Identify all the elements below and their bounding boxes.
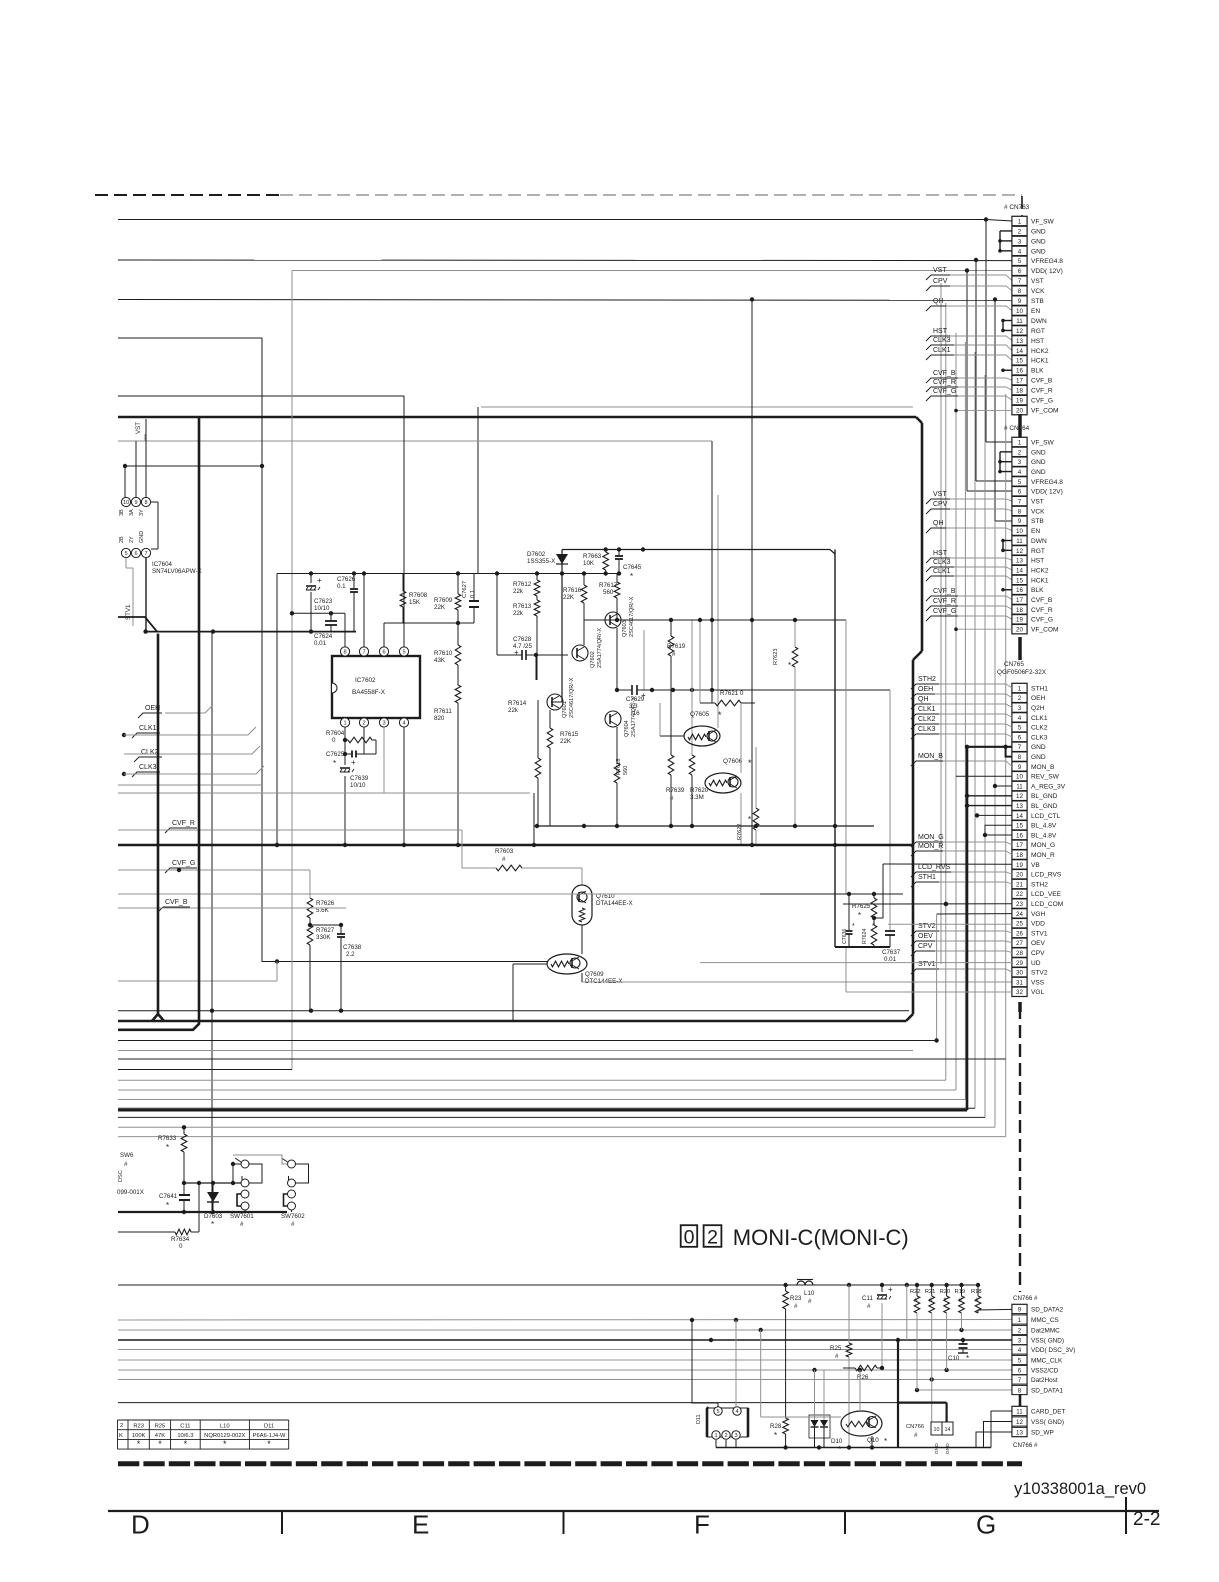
svg-text:RGT: RGT	[1031, 548, 1045, 555]
svg-text:CVF_B: CVF_B	[933, 370, 956, 377]
wire to pin9	[978, 1309, 1012, 1313]
svg-text:D: D	[131, 1510, 150, 1540]
svg-text:2SC4617/QR/-X: 2SC4617/QR/-X	[629, 596, 635, 637]
svg-text:C11: C11	[180, 1424, 190, 1430]
svg-text:HCK2: HCK2	[1031, 348, 1049, 355]
svg-text:2SA1774/QR/-X: 2SA1774/QR/-X	[597, 628, 603, 668]
svg-text:VF_COM: VF_COM	[1031, 407, 1058, 414]
svg-text:8: 8	[1018, 508, 1022, 515]
svg-text:17: 17	[1016, 842, 1023, 849]
svg-text:R7611: R7611	[434, 708, 452, 715]
bundle wire	[955, 333, 957, 1090]
vertical x752	[751, 300, 753, 846]
CLK1 wire	[124, 727, 256, 735]
svg-text:*: *	[184, 1439, 188, 1449]
svg-text:SD_DATA2: SD_DATA2	[1031, 1306, 1064, 1313]
svg-text:Dat2MMC: Dat2MMC	[1031, 1327, 1060, 1334]
svg-text:R7615: R7615	[560, 731, 579, 738]
wire LCD_VEE	[118, 893, 760, 895]
wire SD_WP pin13	[976, 1432, 1012, 1448]
svg-text:13: 13	[1016, 803, 1023, 810]
svg-text:22k: 22k	[513, 588, 524, 595]
svg-text:+: +	[888, 1285, 893, 1294]
svg-text:STH1: STH1	[918, 874, 936, 881]
top dashed border	[95, 194, 280, 196]
svg-text:*: *	[774, 1431, 777, 1440]
svg-text:VF_SW: VF_SW	[1031, 439, 1054, 446]
CLK3 wire	[124, 766, 264, 774]
svg-text:27: 27	[1016, 940, 1023, 947]
svg-text:10: 10	[1016, 308, 1023, 315]
svg-text:VDD( DSC_3V): VDD( DSC_3V)	[1031, 1347, 1075, 1354]
svg-text:*: *	[137, 1439, 141, 1449]
svg-text:10K: 10K	[583, 560, 595, 567]
svg-text:CVF_B: CVF_B	[165, 899, 188, 906]
svg-text:12: 12	[1016, 793, 1023, 800]
pin 7	[359, 647, 368, 656]
svg-text:C7623: C7623	[314, 598, 333, 605]
transistor Q7601	[547, 694, 563, 710]
svg-text:# CN763: # CN763	[1004, 204, 1030, 211]
svg-text:#: #	[124, 1161, 128, 1168]
svg-text:STH1: STH1	[1031, 685, 1048, 692]
riser x478	[477, 407, 479, 574]
svg-text:4: 4	[1018, 1347, 1022, 1354]
svg-text:D11: D11	[264, 1424, 274, 1430]
svg-text:MON_B: MON_B	[1031, 764, 1055, 771]
svg-text:STH2: STH2	[918, 676, 936, 683]
svg-text:22: 22	[1016, 891, 1023, 898]
wire y407	[481, 406, 913, 408]
svg-text:*: *	[852, 923, 855, 930]
svg-text:R7613: R7613	[513, 603, 532, 610]
svg-text:4: 4	[1018, 715, 1022, 722]
svg-text:GND: GND	[1031, 744, 1046, 751]
svg-text:12: 12	[1016, 548, 1023, 555]
svg-text:11: 11	[1016, 783, 1023, 790]
vertical x212	[211, 632, 213, 1210]
wire VFREG4.8	[118, 259, 1012, 262]
svg-text:QH: QH	[933, 520, 944, 527]
svg-text:R7623: R7623	[773, 649, 779, 665]
svg-text:HCK1: HCK1	[1031, 358, 1049, 365]
svg-text:L10: L10	[804, 1290, 815, 1297]
cable link	[1019, 1394, 1022, 1406]
svg-text:+: +	[641, 691, 646, 700]
bundle wire	[1005, 394, 1007, 1137]
svg-text:GND: GND	[945, 1443, 951, 1454]
svg-text:Q7604: Q7604	[624, 720, 630, 737]
svg-text:CARD_DET: CARD_DET	[1031, 1408, 1066, 1415]
svg-text:14: 14	[1016, 567, 1023, 574]
wire from Q7603	[643, 630, 645, 690]
svg-text:CLK1: CLK1	[139, 725, 157, 732]
svg-text:R18: R18	[971, 1289, 982, 1295]
bundle wire	[964, 342, 966, 1100]
svg-text:22K: 22K	[560, 738, 572, 745]
IC7604 inverter pins row1	[125, 465, 262, 467]
svg-text:#: #	[240, 1221, 244, 1228]
svg-text:R19: R19	[955, 1289, 966, 1295]
svg-text:8: 8	[144, 500, 147, 506]
svg-text:DSC: DSC	[118, 1170, 124, 1182]
svg-text:CLK3: CLK3	[1031, 734, 1048, 741]
svg-text:22K: 22K	[563, 594, 575, 601]
svg-text:*: *	[748, 758, 752, 768]
switch cell	[288, 1160, 296, 1168]
svg-text:C7624: C7624	[314, 633, 333, 640]
svg-text:VSS( GND): VSS( GND)	[1031, 1337, 1064, 1344]
wire VGH pin24	[937, 913, 1012, 915]
svg-text:C10: C10	[948, 1355, 960, 1362]
pin 5	[399, 647, 408, 656]
svg-text:3: 3	[1018, 238, 1022, 245]
bus wire y1090	[118, 1089, 956, 1091]
svg-text:1: 1	[714, 1433, 717, 1439]
GND thick wire CN765 pin7	[967, 746, 1012, 748]
svg-text:*: *	[858, 911, 861, 920]
svg-text:GND: GND	[1031, 228, 1046, 235]
svg-text:*: *	[223, 1439, 227, 1449]
svg-text:VCK: VCK	[1031, 288, 1045, 295]
gnd rail	[835, 946, 890, 948]
svg-text:LCD_RVS: LCD_RVS	[918, 864, 950, 871]
svg-text:R20: R20	[940, 1289, 951, 1295]
svg-text:0.1: 0.1	[470, 590, 476, 598]
rail y573	[277, 573, 619, 575]
tick	[281, 1511, 283, 1534]
svg-text:6: 6	[1018, 1367, 1022, 1374]
svg-text:MONI-C(MONI-C): MONI-C(MONI-C)	[733, 1225, 909, 1250]
tick	[844, 1511, 846, 1534]
svg-text:Q2H: Q2H	[1031, 705, 1045, 712]
vertical VF_SW to CN764	[985, 221, 987, 442]
wires BL_4.8V pins 15,16	[985, 825, 1012, 835]
svg-text:21: 21	[1016, 881, 1023, 888]
bundle wire	[945, 303, 947, 1080]
wire q7609 out	[582, 981, 1012, 983]
svg-text:Q7601: Q7601	[562, 701, 568, 718]
svg-text:*: *	[630, 572, 633, 581]
svg-text:RGT: RGT	[1031, 328, 1045, 335]
svg-text:MON_G: MON_G	[1031, 842, 1055, 849]
svg-text:GND: GND	[1031, 238, 1046, 245]
svg-text:10: 10	[1016, 528, 1023, 535]
vertical STB	[994, 300, 996, 521]
svg-text:22k: 22k	[513, 610, 524, 617]
wire to D11 pin5	[692, 1320, 718, 1407]
bundle wire	[974, 352, 976, 1108]
svg-text:VST: VST	[135, 422, 142, 434]
bus wire y1099.5	[118, 1099, 965, 1101]
svg-text:R7604: R7604	[326, 730, 345, 737]
svg-text:+: +	[351, 758, 356, 767]
svg-text:5: 5	[1018, 1357, 1022, 1364]
bottom rail SW block	[118, 1211, 287, 1213]
svg-text:43K: 43K	[434, 657, 446, 664]
svg-text:R26: R26	[857, 1374, 869, 1381]
transistor Q7604	[605, 711, 621, 727]
bus wire y1117.4	[118, 1116, 985, 1118]
svg-text:*: *	[718, 710, 722, 720]
svg-text:28: 28	[1016, 950, 1023, 957]
riser to C7628 wire	[496, 574, 498, 656]
svg-text:8: 8	[1018, 1387, 1022, 1394]
svg-text:3.3: 3.3	[629, 703, 638, 710]
svg-text:10: 10	[123, 500, 129, 506]
svg-text:20: 20	[1016, 407, 1023, 414]
svg-text:BL_GND: BL_GND	[1031, 793, 1058, 800]
svg-text:10/10: 10/10	[314, 605, 330, 612]
svg-text:#: #	[835, 1353, 839, 1360]
grey wire y981	[118, 980, 277, 982]
gnd links	[999, 452, 1001, 472]
riser from CVF_R wire	[461, 830, 463, 868]
svg-text:CLK1: CLK1	[933, 347, 951, 354]
svg-text:9: 9	[1018, 764, 1022, 771]
svg-text:*: *	[748, 815, 751, 824]
svg-text:19: 19	[1016, 617, 1023, 624]
pin 6	[379, 647, 388, 656]
wire y1370 pin6	[118, 1369, 1012, 1371]
grey wire y785	[118, 784, 262, 786]
svg-text:16: 16	[1016, 368, 1023, 375]
svg-text:2SC4617/QR/-X: 2SC4617/QR/-X	[569, 677, 575, 718]
svg-text:CLK3: CLK3	[918, 726, 936, 733]
svg-text:R25: R25	[830, 1345, 842, 1352]
svg-text:11: 11	[1016, 538, 1023, 545]
wire y1380 pin7	[118, 1379, 1012, 1381]
svg-text:A_REG_3V: A_REG_3V	[1031, 783, 1066, 790]
svg-text:OEV: OEV	[1031, 940, 1046, 947]
wire CARD_DET pin11	[991, 1411, 1012, 1448]
svg-text:D10: D10	[831, 1438, 843, 1445]
svg-text:6: 6	[382, 650, 385, 656]
svg-text:VST: VST	[1031, 499, 1044, 506]
svg-text:CLK2: CLK2	[1031, 725, 1048, 732]
Q10 top wire	[859, 1370, 861, 1411]
wire LCD_CTL pin14	[977, 814, 1012, 816]
pin 4	[399, 718, 408, 727]
svg-text:+: +	[317, 576, 322, 585]
resistor R7608	[400, 591, 406, 607]
svg-text:C7637: C7637	[882, 949, 901, 956]
gnd link pin8	[1006, 747, 1012, 757]
svg-text:DTA144EE-X: DTA144EE-X	[596, 900, 633, 907]
svg-text:*: *	[333, 759, 336, 768]
svg-text:MMC_CS: MMC_CS	[1031, 1317, 1059, 1324]
wire y1350 pin4	[118, 1349, 1012, 1351]
svg-text:19: 19	[1016, 862, 1023, 869]
svg-text:2: 2	[707, 1227, 718, 1249]
thick bus y1021	[118, 1020, 906, 1023]
svg-text:20: 20	[1016, 872, 1023, 879]
svg-text:GND: GND	[1031, 754, 1046, 761]
svg-text:R28: R28	[770, 1423, 782, 1430]
svg-text:CN766 #: CN766 #	[1013, 1295, 1038, 1302]
svg-text:CLK2: CLK2	[918, 716, 936, 723]
drop from base wire	[535, 655, 537, 680]
svg-text:6: 6	[1018, 489, 1022, 496]
svg-text:7: 7	[1018, 278, 1022, 285]
svg-text:VST: VST	[933, 267, 947, 274]
svg-text:25: 25	[1016, 921, 1023, 928]
wire to x262	[118, 337, 262, 339]
svg-text:CLK3: CLK3	[933, 559, 951, 566]
vertical x835	[834, 550, 836, 948]
svg-text:EN: EN	[1031, 308, 1040, 315]
bus wire y1069.5	[118, 1069, 292, 1071]
svg-text:STV2: STV2	[1031, 970, 1048, 977]
rail y894	[760, 893, 903, 895]
svg-text:26: 26	[1016, 930, 1023, 937]
svg-text:CLK2: CLK2	[141, 749, 159, 756]
svg-text:820: 820	[434, 715, 445, 722]
pin 8	[340, 647, 349, 656]
transistor Q7603	[605, 612, 621, 628]
svg-text:4: 4	[1018, 248, 1022, 255]
svg-text:14: 14	[1016, 813, 1023, 820]
wire y1340 pin3	[118, 1339, 1012, 1341]
svg-text:17: 17	[1016, 378, 1023, 385]
svg-text:y10338001a_rev0: y10338001a_rev0	[1014, 1480, 1146, 1498]
bus wire y1059	[118, 1058, 1006, 1060]
bus wire y1050.5	[118, 1050, 913, 1052]
switch cell	[241, 1160, 249, 1168]
svg-text:*: *	[158, 1439, 162, 1449]
switch link wire	[233, 1155, 288, 1164]
svg-text:20: 20	[1016, 627, 1023, 634]
svg-text:CLK1: CLK1	[1031, 715, 1048, 722]
transistor Q7610	[572, 885, 592, 925]
resistor R20	[944, 1296, 950, 1313]
svg-text:10: 10	[934, 1427, 940, 1433]
svg-text:CLK1: CLK1	[918, 706, 936, 713]
wire STB	[118, 299, 1012, 302]
svg-text:CVF_B: CVF_B	[933, 588, 956, 595]
wire y1360 pin5	[118, 1359, 1012, 1361]
svg-text:*: *	[838, 1445, 841, 1454]
svg-text:STB: STB	[1031, 518, 1044, 525]
svg-text:MON_G: MON_G	[918, 834, 944, 841]
svg-text:4: 4	[1018, 469, 1022, 476]
svg-text:R23: R23	[133, 1424, 144, 1430]
svg-text:BL_4.8V: BL_4.8V	[1031, 823, 1057, 830]
svg-text:HST: HST	[933, 550, 948, 557]
vertical x534	[533, 793, 535, 845]
wire D10 left	[814, 1370, 816, 1420]
svg-text:3B: 3B	[119, 509, 125, 516]
svg-text:R7609: R7609	[434, 597, 453, 604]
grey vertical x292	[291, 271, 293, 1070]
wire VF_SW top	[118, 219, 986, 221]
svg-text:2B: 2B	[119, 536, 125, 543]
svg-text:11: 11	[1016, 1408, 1023, 1415]
svg-text:1SS355-X: 1SS355-X	[527, 558, 555, 565]
vertical VDD	[966, 271, 968, 492]
svg-text:2: 2	[1018, 695, 1022, 702]
wires BL_GND pins 12,13	[967, 795, 1012, 797]
svg-text:+: +	[514, 648, 519, 657]
thick GND path	[897, 1340, 899, 1448]
junction rail y620	[584, 619, 846, 621]
svg-text:OEH: OEH	[1031, 695, 1046, 702]
svg-text:1: 1	[1018, 439, 1022, 446]
svg-text:VDD( 12V): VDD( 12V)	[1031, 489, 1063, 496]
thick GND vertical	[966, 747, 969, 1110]
svg-text:18: 18	[1016, 388, 1023, 395]
wire y623	[384, 622, 474, 624]
wire A_REG_3V pin11	[995, 785, 1012, 787]
svg-text:HCK2: HCK2	[1031, 567, 1049, 574]
svg-text:C7638: C7638	[343, 944, 362, 951]
svg-text:HST: HST	[1031, 338, 1044, 345]
svg-text:REV_SW: REV_SW	[1031, 774, 1060, 781]
svg-text:7: 7	[1018, 499, 1022, 506]
svg-text:CN766: CN766	[906, 1424, 924, 1430]
svg-text:D11: D11	[696, 1415, 702, 1425]
svg-text:560: 560	[603, 589, 614, 596]
svg-text:UD: UD	[1031, 960, 1041, 967]
svg-text:CVF_B: CVF_B	[1031, 597, 1053, 604]
svg-text:16: 16	[1016, 832, 1023, 839]
R23 column	[785, 1309, 787, 1418]
svg-text:8: 8	[1018, 288, 1022, 295]
svg-text:QGF0506F2-32X: QGF0506F2-32X	[997, 669, 1047, 676]
svg-text:18: 18	[1016, 852, 1023, 859]
svg-text:R7621 0: R7621 0	[720, 690, 744, 697]
svg-text:1: 1	[1018, 218, 1022, 225]
svg-text:G: G	[976, 1510, 996, 1540]
resistor R18	[975, 1296, 981, 1313]
svg-text:7: 7	[362, 650, 365, 656]
vertical x277	[276, 574, 278, 846]
svg-text:CN766 #: CN766 #	[1013, 1442, 1038, 1449]
svg-text:GND: GND	[1031, 469, 1046, 476]
vertical x404 to IC	[403, 396, 405, 647]
bottom rule	[108, 1510, 1159, 1512]
svg-text:330K: 330K	[316, 934, 331, 941]
svg-text:5: 5	[124, 551, 127, 557]
svg-text:R7608: R7608	[409, 592, 428, 599]
cable below CN765	[1018, 1002, 1022, 1012]
wire	[740, 703, 742, 773]
wire LCD_COM	[843, 903, 1012, 905]
svg-text:3Y: 3Y	[139, 509, 145, 516]
capacitor C7624	[325, 620, 337, 622]
svg-text:GND: GND	[1031, 449, 1046, 456]
svg-text:OEH: OEH	[918, 686, 933, 693]
grey wire y793	[118, 792, 530, 794]
svg-text:C7627: C7627	[462, 581, 468, 598]
svg-text:SW6: SW6	[120, 1152, 134, 1159]
svg-text:10/10: 10/10	[350, 782, 366, 789]
svg-text:L10: L10	[220, 1424, 230, 1430]
svg-text:4: 4	[402, 721, 405, 727]
svg-text:CVF_R: CVF_R	[1031, 607, 1053, 614]
bus wire y1080.2	[118, 1079, 946, 1081]
svg-text:2Y: 2Y	[129, 536, 135, 543]
svg-text:12: 12	[1016, 1419, 1023, 1426]
wire y1320 pin1	[118, 1319, 1012, 1322]
svg-text:HST: HST	[933, 328, 948, 335]
svg-text:CPV: CPV	[933, 501, 948, 508]
cable CN764-CN765	[1018, 637, 1022, 660]
svg-text:31: 31	[1016, 979, 1023, 986]
thick vertical x913	[912, 660, 915, 1014]
svg-text:9: 9	[1018, 518, 1022, 525]
riser to C7637	[889, 690, 891, 931]
